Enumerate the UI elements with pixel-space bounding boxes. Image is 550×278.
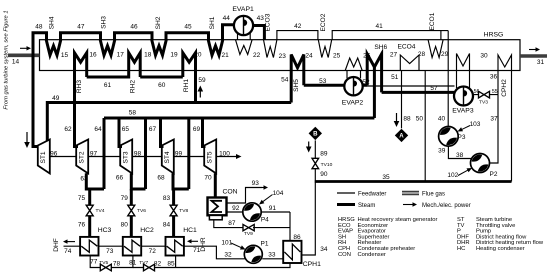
pipe 33 P1 to CPH1: [262, 258, 283, 260]
svg-text:57: 57: [430, 85, 438, 92]
pipe 43: [253, 26, 264, 40]
svg-text:TV8: TV8: [179, 208, 188, 214]
svg-text:96: 96: [50, 150, 58, 157]
legend mech arrow: [403, 204, 415, 206]
economizer ECO2 coil: [318, 40, 331, 58]
pipe 41: [332, 31, 448, 40]
superheater SH4: [46, 40, 61, 56]
svg-text:21: 21: [221, 52, 229, 59]
svg-text:82: 82: [154, 260, 162, 267]
pipe 57: [382, 91, 455, 94]
legend feedwater sample: [337, 192, 355, 194]
pipe 42: [277, 31, 318, 40]
svg-text:51: 51: [391, 74, 399, 81]
pipe 70 ST5 exhaust to CON: [214, 173, 217, 197]
pipe 46: [115, 33, 153, 40]
flue gas outlet arrow: [529, 49, 538, 51]
svg-text:33: 33: [268, 251, 276, 258]
pipe 50: [424, 71, 426, 182]
pipe 68 ST4 exhaust: [173, 118, 189, 189]
EVAP3 coil: [457, 54, 470, 71]
arrow 103 to P3: [462, 126, 470, 130]
pipe 37 down to P2: [490, 95, 499, 163]
bottom drain HC3-HC2: [90, 256, 133, 268]
svg-text:67: 67: [149, 126, 157, 133]
pipe 47: [61, 33, 101, 40]
svg-text:TV9: TV9: [244, 231, 253, 237]
steam turbine ST2: [76, 140, 88, 174]
svg-text:25: 25: [333, 53, 341, 60]
svg-text:38: 38: [456, 152, 464, 159]
svg-text:97: 97: [90, 150, 98, 157]
superheater SH2: [152, 40, 167, 56]
feedwater line EVAP2 to EVAP3: [363, 85, 455, 87]
economizer ECO3 coil: [264, 40, 277, 58]
condensate preheater CPH1: [283, 241, 301, 263]
pipe 72: [141, 245, 165, 247]
svg-text:SH6: SH6: [374, 44, 387, 51]
svg-text:64: 64: [94, 126, 102, 133]
svg-text:58: 58: [129, 110, 137, 117]
pipe 55 TV3 56: [473, 94, 498, 96]
svg-text:49: 49: [52, 95, 60, 102]
svg-text:HC3: HC3: [98, 227, 112, 234]
superheater SH6 coil: [367, 54, 381, 92]
economizer ECO1 coil: [428, 40, 443, 58]
svg-text:14: 14: [12, 59, 20, 66]
svg-text:88: 88: [403, 116, 411, 123]
svg-text:HC: HC: [457, 246, 465, 252]
svg-text:24: 24: [305, 52, 313, 59]
svg-text:From gas turbine system, see F: From gas turbine system, see Figure 1: [4, 10, 10, 109]
svg-text:59: 59: [198, 77, 206, 84]
EVAP2 coil: [345, 58, 362, 71]
svg-text:TV10: TV10: [321, 162, 333, 168]
svg-text:SH1: SH1: [209, 16, 216, 29]
svg-text:32: 32: [224, 251, 232, 258]
svg-text:TV4: TV4: [96, 208, 105, 214]
svg-text:50: 50: [416, 116, 424, 123]
throttling valve TV4: [86, 205, 93, 216]
throttling valve TV5: [100, 264, 111, 271]
arrow 101 to P1: [231, 243, 241, 248]
throttling valve TV10: [312, 158, 319, 168]
svg-text:EVAP3: EVAP3: [452, 108, 474, 115]
svg-text:DHF: DHF: [53, 238, 60, 252]
superheater SH1: [208, 40, 223, 56]
legend steam sample: [337, 203, 355, 206]
pipe 66 ST3 exhaust: [131, 118, 145, 189]
DHF outlet line 74: [64, 245, 81, 247]
svg-text:42: 42: [294, 23, 302, 30]
pipe 40 ECO1 to P3: [447, 31, 449, 127]
svg-text:68: 68: [157, 175, 165, 182]
pipe 53: [304, 84, 345, 87]
svg-text:98: 98: [134, 150, 142, 157]
pipe 76 to HC3: [88, 216, 91, 237]
svg-text:Mech./elec. power: Mech./elec. power: [422, 203, 471, 209]
CON hotwell: [209, 215, 222, 219]
steam turbine ST4: [162, 140, 174, 174]
turbine shaft: [50, 156, 238, 158]
DHR inlet line 71: [184, 246, 245, 259]
svg-text:79: 79: [121, 195, 129, 202]
svg-text:EVAP1: EVAP1: [232, 6, 254, 13]
arrow up pipe 59: [199, 89, 201, 98]
svg-text:73: 73: [106, 248, 114, 255]
svg-text:P2: P2: [490, 171, 498, 178]
svg-text:86: 86: [293, 234, 301, 241]
svg-text:27: 27: [390, 52, 398, 59]
arrow 102 to P2: [458, 170, 468, 175]
svg-text:61: 61: [104, 82, 112, 89]
pipe 48 top segment: [33, 33, 47, 147]
svg-text:46: 46: [130, 24, 138, 31]
svg-text:87: 87: [228, 220, 236, 227]
svg-text:SH4: SH4: [48, 16, 55, 29]
svg-text:35: 35: [382, 174, 390, 181]
pipe 91: [261, 211, 290, 213]
svg-text:P3: P3: [458, 134, 466, 141]
throttling valve TV3: [479, 91, 490, 98]
evaporator EVAP2 drum: [344, 77, 362, 95]
svg-text:45: 45: [184, 24, 192, 31]
svg-text:SH2: SH2: [155, 16, 162, 29]
svg-text:CPH1: CPH1: [303, 261, 321, 268]
DHF arrow: [66, 241, 76, 243]
shaft power arrow: [236, 154, 242, 159]
pipe 35: [315, 180, 512, 183]
svg-text:EVAP2: EVAP2: [342, 100, 364, 107]
svg-text:54: 54: [281, 77, 289, 84]
pipe 80 to HC2: [130, 216, 133, 237]
heating condenser HC2: [123, 237, 141, 256]
pipe 41 stub to ECO1: [440, 31, 442, 40]
pipe 64 drop: [103, 118, 106, 189]
svg-text:39: 39: [438, 148, 446, 155]
CON sigma tube: [212, 201, 223, 212]
svg-text:TV3: TV3: [479, 100, 488, 106]
EVAP3 coil legs: [457, 71, 470, 89]
steam turbine ST1: [38, 140, 50, 174]
svg-text:41: 41: [375, 23, 383, 30]
svg-text:23: 23: [279, 53, 287, 60]
superheater SH5 coil: [291, 55, 304, 103]
svg-text:TV6: TV6: [137, 208, 146, 214]
svg-text:37: 37: [490, 116, 498, 123]
svg-text:P1: P1: [261, 241, 269, 248]
svg-text:56: 56: [474, 89, 480, 95]
svg-text:29: 29: [441, 51, 449, 58]
pipe 39/38 P3 to P2: [448, 146, 471, 158]
svg-text:15: 15: [61, 52, 69, 59]
pipe 85 to CPH1: [176, 263, 290, 268]
svg-text:18: 18: [144, 52, 152, 59]
DHR arrow: [190, 240, 199, 242]
EVAP2 coil legs: [347, 71, 361, 79]
pipe 89 B to TV10: [314, 140, 316, 158]
svg-text:Heating condenser: Heating condenser: [476, 246, 525, 252]
economizer ECO4 coil: [400, 55, 419, 71]
EVAP1 coil 22: [236, 40, 253, 55]
pipe 44: [223, 25, 235, 40]
arrow 93: [262, 187, 266, 189]
pump P4: [243, 203, 261, 221]
svg-text:93: 93: [252, 180, 260, 187]
evaporator EVAP1 drum: [234, 16, 253, 35]
svg-text:34: 34: [320, 246, 328, 253]
svg-text:CON: CON: [338, 252, 351, 258]
svg-text:ECO1: ECO1: [429, 12, 436, 30]
svg-text:83: 83: [163, 195, 171, 202]
pipe 87 to TV9: [214, 220, 244, 228]
svg-text:19: 19: [170, 52, 178, 59]
bottom drain HC2-HC1: [133, 256, 176, 268]
svg-text:63: 63: [80, 176, 88, 183]
svg-text:53: 53: [319, 78, 327, 85]
node B: [309, 127, 322, 140]
pipe 61: [87, 76, 129, 79]
svg-text:RH1: RH1: [183, 79, 190, 93]
pipe 67 to ST4: [161, 118, 164, 147]
reheater RH2 coil: [129, 53, 141, 79]
header pipe 58: [104, 117, 374, 120]
svg-text:36: 36: [490, 74, 498, 81]
svg-text:69: 69: [193, 126, 201, 133]
pipe TV9 to CPH1: [253, 212, 290, 241]
svg-text:HC2: HC2: [140, 227, 154, 234]
svg-text:70: 70: [204, 175, 212, 182]
svg-text:Flue gas: Flue gas: [422, 191, 445, 197]
svg-text:89: 89: [320, 151, 328, 158]
svg-text:CPH2: CPH2: [501, 79, 508, 97]
pipe 45: [166, 33, 209, 40]
svg-text:40: 40: [438, 116, 446, 123]
svg-text:Condenser: Condenser: [358, 252, 386, 258]
svg-text:62: 62: [64, 126, 72, 133]
svg-text:100: 100: [219, 150, 230, 157]
svg-text:66: 66: [116, 175, 124, 182]
heating condenser HC1: [166, 237, 184, 256]
svg-text:HC1: HC1: [183, 227, 197, 234]
svg-text:B: B: [313, 131, 318, 138]
svg-text:99: 99: [175, 150, 183, 157]
svg-text:80: 80: [121, 222, 129, 229]
svg-text:22: 22: [253, 52, 261, 59]
arrow into ST1: [26, 132, 28, 145]
svg-text:55: 55: [492, 89, 498, 95]
svg-text:ECO3: ECO3: [265, 13, 272, 31]
pipe 90/34 to CPH1: [302, 168, 316, 255]
svg-text:81: 81: [129, 260, 137, 267]
svg-text:Steam: Steam: [358, 203, 375, 209]
svg-text:TV7: TV7: [139, 260, 148, 266]
flue gas inlet line 14: [8, 53, 40, 57]
svg-text:47: 47: [77, 24, 85, 31]
pipe 51/88 to node A: [401, 71, 403, 129]
svg-text:48: 48: [35, 24, 43, 31]
legend flue gas sample: [402, 191, 419, 196]
svg-text:CON: CON: [222, 189, 237, 196]
svg-text:101: 101: [221, 239, 232, 246]
throttling valve TV9: [243, 224, 254, 230]
svg-text:ST1: ST1: [40, 151, 47, 163]
arrow 104 to P4: [263, 195, 273, 202]
pipe 60: [140, 76, 183, 79]
pipe 63 ST2 exhaust: [86, 173, 104, 189]
pump P3: [439, 127, 459, 147]
pipe 62 RH3 to ST2: [75, 103, 79, 147]
svg-text:A: A: [399, 133, 404, 140]
EVAP1 downcomer legs: [238, 33, 251, 40]
pipe 69 to ST5: [203, 118, 206, 147]
svg-text:91: 91: [269, 205, 277, 212]
svg-text:RH3: RH3: [76, 80, 83, 94]
pump P2: [471, 154, 490, 173]
svg-text:104: 104: [273, 190, 284, 197]
svg-text:ST2: ST2: [79, 151, 86, 163]
pipe 73: [99, 245, 123, 247]
pipe 79 to TV6: [130, 189, 133, 205]
svg-text:85: 85: [167, 260, 175, 267]
pipe 75 to TV4: [88, 189, 91, 205]
arrow down from B: [308, 142, 310, 150]
svg-text:30: 30: [480, 52, 488, 59]
flue gas inlet arrow: [20, 47, 29, 49]
svg-text:43: 43: [257, 15, 265, 22]
pipe 65 to ST3: [119, 118, 122, 147]
pipe SH6 center to header 58: [373, 65, 376, 118]
svg-text:75: 75: [78, 195, 86, 202]
svg-text:92: 92: [232, 205, 240, 212]
svg-text:ST3: ST3: [123, 151, 130, 163]
evaporator EVAP3 drum: [454, 87, 473, 106]
condenser CON box: [208, 198, 227, 216]
svg-text:84: 84: [163, 222, 171, 229]
svg-text:SH5: SH5: [293, 79, 300, 92]
svg-text:60: 60: [158, 82, 166, 89]
svg-text:72: 72: [149, 248, 157, 255]
svg-text:ECO2: ECO2: [320, 13, 327, 31]
line 93 from CON: [227, 188, 263, 204]
svg-text:74: 74: [64, 248, 72, 255]
heating condenser HC3: [80, 237, 98, 256]
svg-text:78: 78: [113, 260, 121, 267]
node A: [395, 129, 408, 142]
svg-text:TV5: TV5: [99, 260, 108, 266]
svg-text:44: 44: [223, 15, 231, 22]
svg-text:17: 17: [117, 52, 125, 59]
reheater RH1 coil: [183, 53, 196, 103]
reheater RH3 coil: [75, 53, 87, 146]
superheater SH3: [100, 40, 115, 56]
svg-text:SH3: SH3: [101, 16, 108, 29]
pipe 52: [363, 84, 368, 87]
svg-text:77: 77: [90, 259, 98, 266]
svg-text:DHR: DHR: [200, 237, 207, 252]
steam turbine ST5: [204, 140, 216, 174]
pipe 49 reheat line: [47, 103, 291, 142]
CPH2 coil: [498, 55, 512, 182]
svg-text:76: 76: [78, 222, 86, 229]
pipe 84 to HC1: [172, 216, 175, 237]
svg-text:RH2: RH2: [130, 80, 137, 94]
svg-text:HRSG: HRSG: [484, 32, 504, 39]
svg-text:103: 103: [470, 121, 481, 128]
steam turbine ST3: [120, 140, 132, 174]
HRSG flue-gas duct outline: [40, 40, 521, 71]
arrow down node A: [396, 113, 398, 124]
svg-text:ST5: ST5: [207, 151, 214, 163]
svg-text:ECO4: ECO4: [398, 44, 416, 51]
pipe 83 to TV8: [172, 189, 175, 205]
svg-text:Feedwater: Feedwater: [358, 191, 386, 197]
flue gas outlet line 31: [520, 54, 547, 58]
svg-text:31: 31: [537, 59, 545, 66]
svg-text:P4: P4: [261, 217, 269, 224]
svg-text:102: 102: [447, 172, 458, 179]
throttling valve TV8: [170, 205, 177, 216]
svg-text:90: 90: [320, 171, 328, 178]
pump P1: [244, 245, 262, 263]
throttling valve TV7: [144, 264, 155, 271]
pipe 92 CON to P4: [227, 211, 244, 213]
throttling valve TV6: [128, 205, 135, 216]
svg-text:ST4: ST4: [164, 151, 171, 163]
svg-text:65: 65: [122, 126, 130, 133]
svg-text:16: 16: [89, 52, 97, 59]
